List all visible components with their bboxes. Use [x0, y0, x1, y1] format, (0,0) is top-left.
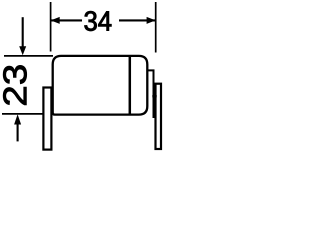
up-arrow shaft (dim 23) [17, 124, 19, 141]
extension line right (dim 34) [155, 2, 157, 53]
down-arrow shaft (dim 23) [22, 17, 24, 47]
extension line top (dim 23) [4, 55, 53, 57]
label 34 [85, 11, 112, 31]
left lead [43, 88, 51, 150]
dimension line 34 left segment [51, 19, 82, 21]
solder joint crossbar (right) [152, 95, 156, 97]
extension line left (dim 34) [50, 2, 52, 52]
extension line bottom (dim 23) [2, 113, 43, 115]
right lead [156, 84, 162, 149]
arrowhead up (dim 23) [14, 114, 21, 124]
right end cap outline [147, 70, 153, 118]
label 23 (rotated) [3, 65, 26, 104]
arrowhead left (dim 34) [51, 17, 60, 24]
dimension line 34 right segment [119, 19, 155, 21]
arrowhead right (dim 34) [147, 17, 156, 24]
component body [53, 56, 148, 115]
arrowhead down (dim 23) [19, 46, 26, 55]
cathode band [129, 57, 132, 114]
